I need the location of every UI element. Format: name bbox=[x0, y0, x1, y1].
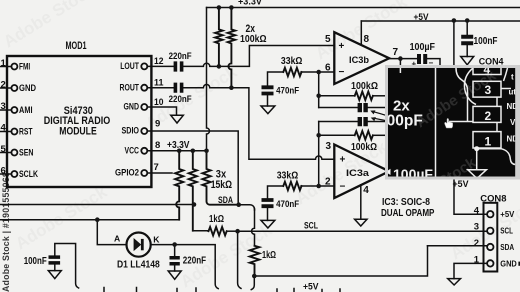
rail +5V bbox=[361, 20, 520, 22]
svg-text:220nF: 220nF bbox=[183, 256, 206, 267]
pointer arrow to C6 bbox=[374, 118, 390, 121]
svg-text:1kΩ: 1kΩ bbox=[209, 213, 224, 225]
wire SCL row bbox=[238, 230, 487, 232]
svg-text:15kΩ: 15kΩ bbox=[211, 179, 232, 191]
hand cursor bbox=[445, 118, 453, 128]
svg-text:7: 7 bbox=[154, 162, 159, 173]
capacitor C6 100pF bbox=[360, 117, 366, 126]
svg-text:2: 2 bbox=[474, 238, 479, 249]
svg-text:3: 3 bbox=[326, 141, 332, 152]
capacitor C4 470nF bbox=[262, 200, 274, 206]
svg-text:SCL: SCL bbox=[304, 220, 318, 230]
svg-text:+3.3V: +3.3V bbox=[238, 0, 263, 8]
svg-text:FMI: FMI bbox=[19, 62, 30, 72]
capacitor C10 220nF plates bbox=[170, 258, 180, 264]
svg-text:4: 4 bbox=[474, 206, 480, 217]
svg-text:SDIO: SDIO bbox=[122, 126, 140, 136]
ground GND10 bbox=[171, 115, 184, 123]
wire CON8 +5V drop bbox=[454, 179, 487, 214]
inset wire vertical bbox=[435, 68, 437, 177]
wire row C bbox=[319, 121, 386, 123]
svg-text:8: 8 bbox=[155, 140, 160, 151]
svg-text:GND: GND bbox=[500, 258, 517, 268]
pin SEN wire bbox=[0, 152, 11, 154]
wire SDIO to SDA bbox=[147, 131, 238, 205]
wire VCC row bbox=[147, 150, 206, 152]
svg-text:220nF: 220nF bbox=[169, 51, 192, 62]
module MOD1 box bbox=[7, 56, 151, 187]
wire pin7 drop bbox=[399, 59, 401, 66]
wire ROUT to C2 bbox=[147, 87, 173, 89]
inset pin box 1 bbox=[473, 132, 501, 148]
pin circle RST bbox=[11, 129, 17, 135]
resistor R10 1k horizontal bbox=[209, 227, 227, 235]
wire pin7 output bbox=[389, 58, 417, 60]
svg-text:12: 12 bbox=[154, 56, 164, 67]
bottom cut stubs bbox=[104, 288, 340, 292]
pin circle GND bbox=[11, 85, 17, 91]
svg-text:A: A bbox=[114, 233, 120, 243]
wire pin8 IC3b bbox=[360, 21, 362, 45]
wire fb vertical IC3b bbox=[318, 72, 320, 108]
svg-text:MOD1: MOD1 bbox=[66, 40, 87, 52]
resistor R4 15k bbox=[189, 151, 197, 231]
svg-text:6: 6 bbox=[1, 166, 6, 177]
wire 1k to SCL row bbox=[227, 230, 238, 232]
wire CON8 GND stub bbox=[454, 263, 487, 278]
magnifier inset box bbox=[378, 63, 520, 219]
svg-text:+: + bbox=[339, 41, 345, 52]
ground CON8 bbox=[448, 279, 461, 285]
wire LOUT to C1 bbox=[147, 65, 173, 67]
inset pin box 4 partial bbox=[473, 66, 501, 75]
svg-text:100µF: 100µF bbox=[410, 42, 435, 53]
svg-text:t: t bbox=[511, 73, 514, 82]
diode D1 LL4148 bbox=[127, 233, 151, 257]
resistor R5 15k bbox=[202, 151, 238, 205]
resistor R3 15k bbox=[175, 151, 183, 220]
svg-text:3: 3 bbox=[474, 222, 479, 233]
capacitor C1 220nF plates bbox=[175, 61, 181, 71]
pin circle GPIO2 bbox=[141, 170, 147, 176]
svg-text:SDA: SDA bbox=[500, 242, 514, 252]
svg-text:SCL: SCL bbox=[500, 226, 513, 236]
svg-text:IC3b: IC3b bbox=[349, 55, 369, 66]
wire LOUT row1 to pin5 corner bbox=[184, 46, 335, 67]
pin GND wire bbox=[0, 87, 11, 89]
svg-text:GND: GND bbox=[124, 102, 140, 112]
svg-text:IC3a: IC3a bbox=[346, 168, 370, 179]
svg-text:100kΩ: 100kΩ bbox=[240, 33, 267, 45]
pin circle LOUT bbox=[141, 63, 147, 69]
svg-text:+5V: +5V bbox=[500, 209, 514, 219]
svg-text:−: − bbox=[339, 67, 345, 78]
wire +5V bottom row bbox=[254, 246, 487, 276]
resistor R2 100k bbox=[228, 8, 236, 88]
pin circle SEN bbox=[11, 150, 17, 156]
inset daisy wires bbox=[497, 89, 511, 132]
svg-text:8: 8 bbox=[364, 34, 370, 45]
ground C4 bbox=[261, 220, 275, 228]
svg-text:MODULE: MODULE bbox=[59, 125, 97, 137]
svg-text:GPIO2: GPIO2 bbox=[115, 168, 139, 178]
wire row D bbox=[319, 134, 355, 136]
svg-text:V: V bbox=[510, 118, 516, 127]
resistor R7 33k bbox=[283, 182, 301, 190]
wire row B bbox=[319, 107, 386, 109]
svg-text:2: 2 bbox=[325, 176, 331, 187]
opamp IC3a bbox=[334, 145, 389, 199]
wire SDA to 1k2 with hop bbox=[252, 209, 255, 246]
svg-text:SDA: SDA bbox=[218, 195, 233, 205]
pin circle SDIO bbox=[141, 128, 147, 134]
inset ground bbox=[468, 170, 487, 179]
svg-text:4: 4 bbox=[1, 123, 7, 134]
opamp IC3b bbox=[334, 32, 389, 84]
connector CON8 box bbox=[484, 203, 498, 272]
svg-text:RST: RST bbox=[19, 127, 33, 137]
wire SCL drop bottom bbox=[238, 231, 241, 288]
wire ROUT row2 to IC3a pin3 bbox=[184, 85, 335, 160]
svg-text:10: 10 bbox=[154, 97, 164, 108]
svg-text:+3.3V: +3.3V bbox=[167, 140, 190, 151]
rail +3.3V top bbox=[207, 7, 520, 9]
svg-text:+5V: +5V bbox=[414, 12, 429, 22]
wire pin4 IC3a bbox=[360, 185, 362, 219]
svg-text:VCC: VCC bbox=[125, 146, 140, 156]
wire fb vertical IC3a bbox=[318, 122, 320, 187]
svg-text:+5V: +5V bbox=[303, 281, 319, 291]
svg-text:+: + bbox=[340, 155, 346, 166]
wire diode K to 220nF and down bbox=[151, 245, 219, 289]
svg-text:Adobe Stock | #1901555068: Adobe Stock | #1901555068 bbox=[1, 172, 11, 292]
svg-text:100kΩ: 100kΩ bbox=[351, 81, 378, 92]
svg-text:SEN: SEN bbox=[19, 148, 34, 158]
inset pin box 2 bbox=[473, 106, 501, 122]
svg-text:ROUT: ROUT bbox=[120, 82, 140, 92]
capacitor C9 100nF bbox=[466, 21, 468, 35]
svg-text:K: K bbox=[153, 234, 160, 244]
svg-text:+5V: +5V bbox=[453, 179, 469, 189]
inset wire stub bbox=[399, 68, 401, 73]
pin circle VCC bbox=[141, 148, 147, 154]
pin circle SCLK bbox=[11, 171, 17, 177]
svg-text:DUAL OPAMP: DUAL OPAMP bbox=[381, 208, 435, 219]
wire below 1k2 bbox=[251, 276, 254, 290]
capacitor C8 100nF bottom-left bbox=[55, 244, 79, 289]
pin circle FMI bbox=[11, 64, 17, 70]
wire pin6 row bbox=[319, 71, 335, 73]
svg-text:AMI: AMI bbox=[19, 105, 33, 115]
pin AMI wire bbox=[0, 109, 11, 111]
wire GND10 stub bbox=[147, 107, 176, 115]
resistor R9 100k fb bbox=[355, 131, 373, 139]
svg-text:6: 6 bbox=[325, 62, 331, 73]
svg-text:220nF: 220nF bbox=[169, 94, 192, 105]
svg-text:IC3: SOIC-8: IC3: SOIC-8 bbox=[382, 197, 430, 208]
svg-text:4: 4 bbox=[363, 185, 369, 196]
wire CON4 drop bbox=[453, 21, 455, 66]
wire 3.3V rail drop bbox=[207, 8, 210, 151]
ground C8 bbox=[48, 271, 61, 279]
wire CON8 SDA stub bbox=[428, 245, 488, 247]
resistor R8 100k fb bbox=[355, 92, 373, 100]
inset wire left curve bbox=[449, 68, 473, 122]
svg-text:1: 1 bbox=[474, 254, 480, 265]
resistor R6 33k bbox=[283, 68, 301, 76]
svg-text:5: 5 bbox=[1, 144, 7, 155]
svg-text:CON8: CON8 bbox=[480, 193, 506, 204]
pin SCLK wire bbox=[0, 173, 11, 175]
svg-text:SCLK: SCLK bbox=[19, 169, 38, 179]
wire row A bbox=[319, 95, 355, 97]
wire R4 corner to 1k bbox=[193, 230, 209, 232]
svg-text:470nF: 470nF bbox=[276, 199, 299, 210]
ground C9 bbox=[461, 57, 474, 65]
inset wire arc to box3 top bbox=[504, 68, 508, 81]
inset wire below box1 bbox=[477, 149, 516, 170]
wire GPIO2 stub bbox=[147, 172, 172, 174]
capacitor C7 100uF plates bbox=[419, 54, 425, 64]
resistor R1 100k bbox=[215, 8, 223, 67]
svg-text:1: 1 bbox=[1, 58, 7, 69]
svg-text:LOUT: LOUT bbox=[120, 61, 139, 71]
pin RST wire bbox=[0, 131, 11, 133]
inset wire arc to box3 bbox=[464, 68, 476, 105]
watermark on inset bbox=[393, 67, 500, 219]
capacitor C3 470nF bbox=[262, 87, 274, 93]
capacitor C2 220nF plates bbox=[175, 83, 181, 93]
wire left bus SDA-left row y=204.5 bbox=[0, 204, 194, 206]
svg-text:2: 2 bbox=[1, 80, 6, 91]
svg-text:3: 3 bbox=[485, 83, 492, 97]
inset white dot bbox=[474, 146, 479, 151]
pointer arrow to C5 bbox=[374, 112, 391, 117]
svg-text:33kΩ: 33kΩ bbox=[277, 170, 299, 181]
pin circle AMI bbox=[11, 107, 17, 113]
svg-text:5: 5 bbox=[325, 34, 331, 45]
svg-text:1: 1 bbox=[485, 134, 492, 148]
svg-text:1kΩ: 1kΩ bbox=[262, 249, 276, 261]
svg-text:100nF: 100nF bbox=[474, 36, 498, 47]
svg-text:D1 LL4148: D1 LL4148 bbox=[117, 259, 160, 270]
pin circle ROUT bbox=[141, 85, 147, 91]
ground IC3a pin4 bbox=[355, 219, 367, 226]
node SDA corner bbox=[239, 205, 255, 210]
svg-text:7: 7 bbox=[393, 47, 399, 58]
wire pin2 row bbox=[319, 185, 335, 187]
capacitor C5 100pF bbox=[360, 103, 366, 112]
svg-text:100kΩ: 100kΩ bbox=[351, 142, 377, 153]
svg-text:100nF: 100nF bbox=[24, 256, 47, 267]
svg-text:3: 3 bbox=[1, 101, 6, 112]
resistor R11 1k vertical bbox=[250, 246, 260, 276]
svg-text:11: 11 bbox=[154, 78, 164, 89]
inset pin box 3 bbox=[473, 81, 501, 97]
svg-text:2: 2 bbox=[485, 109, 492, 123]
wire left bus row y=219.7 bbox=[0, 219, 179, 221]
watermark id strip left edge bbox=[1, 172, 11, 292]
wire diode branch vertical bbox=[97, 220, 126, 245]
svg-text:9: 9 bbox=[155, 119, 160, 130]
svg-text:GND: GND bbox=[19, 83, 36, 93]
ground C3 bbox=[261, 106, 275, 114]
inset left arrow mark bbox=[386, 169, 391, 175]
pin circle GND10 bbox=[141, 104, 147, 110]
pin FMI wire bbox=[0, 66, 11, 68]
svg-text:−: − bbox=[340, 181, 346, 192]
ground C10 bbox=[168, 271, 181, 279]
svg-text:470nF: 470nF bbox=[276, 86, 299, 97]
svg-text:ut: ut bbox=[509, 88, 517, 97]
svg-text:33kΩ: 33kΩ bbox=[281, 56, 303, 67]
